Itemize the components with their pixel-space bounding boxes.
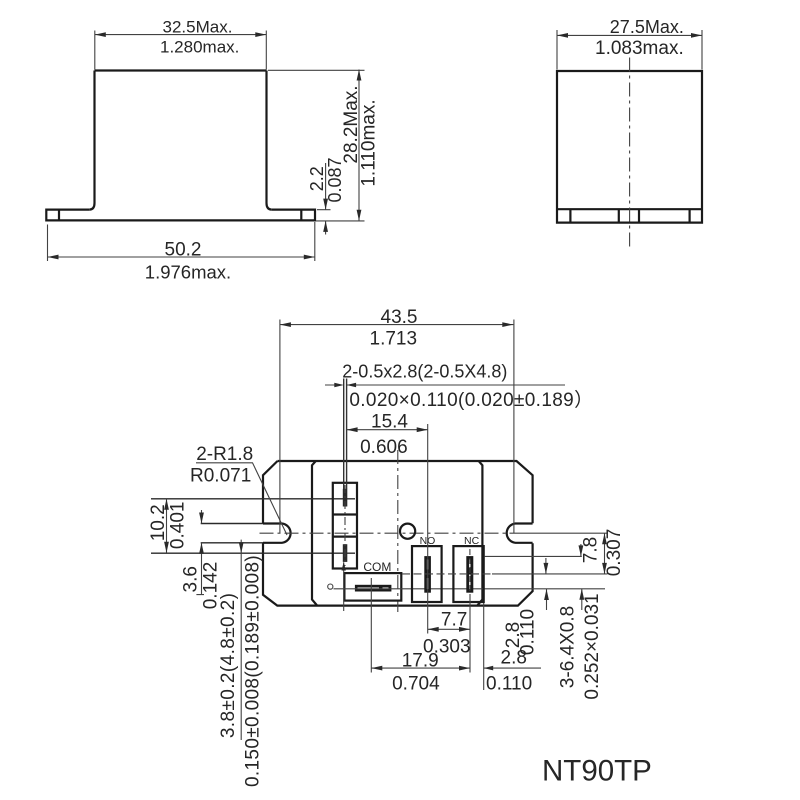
NC box — [453, 546, 483, 602]
flange tick left — [58, 210, 60, 221]
svg-text:15.4: 15.4 — [371, 411, 408, 432]
svg-text:0.020×0.110(0.020±0.189）: 0.020×0.110(0.020±0.189） — [349, 389, 593, 411]
vertical centerline — [397, 450, 399, 612]
NO/NC pin centerline — [402, 573, 492, 575]
svg-text:10.2: 10.2 — [148, 504, 169, 541]
side view body — [557, 71, 702, 223]
dim 7.7 — [371, 578, 470, 673]
left ear slot outside body — [201, 524, 263, 543]
svg-text:17.9: 17.9 — [402, 650, 439, 671]
flange tick right — [300, 210, 302, 221]
svg-text:R0.071: R0.071 — [190, 465, 251, 486]
side bottom dividers — [570, 209, 689, 222]
COM centerline — [334, 588, 606, 590]
bottom outline octagon — [263, 461, 533, 606]
svg-text:0.150±0.008(0.189±0.008): 0.150±0.008(0.189±0.008) — [242, 555, 263, 787]
svg-text:50.2: 50.2 — [165, 240, 202, 261]
small rivet circle — [328, 584, 333, 589]
svg-text:0.110: 0.110 — [518, 609, 539, 655]
dim 3.8/0.150 shaft — [240, 540, 242, 740]
svg-text:0.307: 0.307 — [604, 529, 625, 577]
NO pin slot — [424, 556, 431, 593]
NC pin slot — [466, 556, 473, 593]
front view body — [95, 71, 267, 204]
svg-text:0.401: 0.401 — [168, 502, 189, 550]
dim 2.2 vertical — [317, 163, 331, 235]
center circle — [400, 524, 415, 539]
pin-center arrow — [545, 558, 547, 574]
svg-text:0.606: 0.606 — [360, 437, 408, 458]
dim 32.5 line — [95, 31, 266, 70]
front flange — [46, 210, 315, 221]
COM-line arrow — [581, 589, 583, 610]
svg-text:0.110: 0.110 — [486, 674, 532, 695]
svg-text:COM: COM — [363, 560, 391, 574]
svg-text:NT90TP: NT90TP — [542, 754, 652, 787]
COM-line arrow 2 — [546, 589, 548, 610]
svg-text:0.252×0.031: 0.252×0.031 — [582, 593, 603, 699]
coil pin bottom — [343, 544, 348, 562]
dim 28.2 vertical — [268, 70, 365, 221]
svg-text:1.976max.: 1.976max. — [145, 261, 231, 282]
COM box — [344, 573, 401, 601]
coil pin leader lines — [344, 379, 347, 490]
svg-text:2.2: 2.2 — [307, 166, 327, 191]
svg-text:0.087: 0.087 — [325, 157, 345, 202]
side centerline — [629, 58, 631, 251]
dim 10.2 — [166, 499, 168, 553]
COM pin slot — [355, 585, 392, 592]
svg-text:2-0.5x2.8(2-0.5X4.8): 2-0.5x2.8(2-0.5X4.8) — [342, 361, 507, 381]
dim 2.8 horizontal — [484, 603, 541, 690]
left ear edges — [151, 499, 355, 553]
inner wall right — [477, 461, 482, 606]
coil pin length leader — [343, 562, 345, 611]
svg-text:1.280max.: 1.280max. — [160, 38, 239, 57]
svg-text:1.110max.: 1.110max. — [359, 99, 380, 186]
svg-text:0.704: 0.704 — [392, 673, 440, 694]
coil pin centerline — [344, 485, 346, 566]
svg-text:3-6.4X0.8: 3-6.4X0.8 — [558, 606, 579, 688]
horizontal centerline — [260, 532, 522, 534]
svg-text:3.6: 3.6 — [181, 566, 202, 592]
NO box — [412, 546, 442, 602]
coil pin housing — [333, 483, 357, 569]
dim 17.9 — [371, 667, 470, 669]
svg-text:43.5: 43.5 — [381, 307, 418, 328]
dim 27.5 — [557, 30, 702, 70]
dim 7.8 — [604, 533, 606, 574]
svg-text:7.8: 7.8 — [581, 537, 602, 563]
svg-text:2-R1.8: 2-R1.8 — [196, 444, 253, 465]
inner wall left — [312, 461, 317, 606]
svg-text:27.5Max.: 27.5Max. — [610, 17, 684, 37]
dim 50.2 line — [48, 222, 315, 261]
svg-text:3.8±0.2(4.8±0.2): 3.8±0.2(4.8±0.2) — [218, 593, 239, 739]
svg-text:32.5Max.: 32.5Max. — [163, 18, 233, 37]
right ear slot — [507, 524, 533, 543]
dim 15.4 — [347, 424, 428, 634]
svg-text:1.083max.: 1.083max. — [595, 38, 684, 59]
coil pin top — [343, 489, 348, 507]
front fillet left — [89, 203, 94, 210]
dim 3.6 — [196, 510, 204, 595]
NC pin center dash — [469, 549, 471, 592]
svg-text:1.713: 1.713 — [370, 329, 418, 350]
left ear slot inside body — [263, 524, 291, 543]
dim 43.5 — [280, 320, 514, 534]
slot-top extension + arrow — [485, 544, 582, 556]
svg-text:NC: NC — [464, 535, 480, 547]
svg-text:7.7: 7.7 — [441, 609, 467, 630]
front fillet right — [267, 203, 272, 210]
